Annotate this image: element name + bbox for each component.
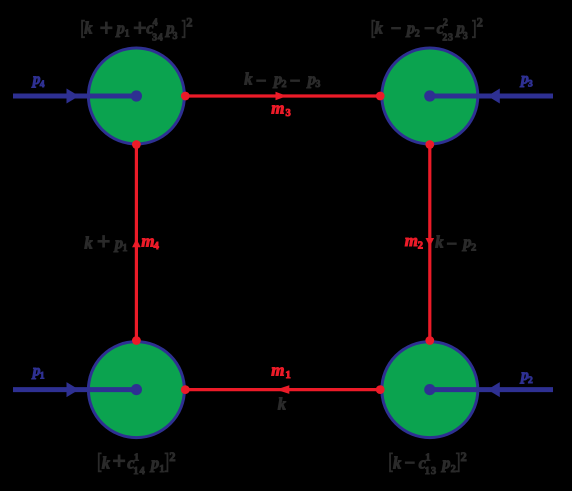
svg-text:2: 2 — [282, 79, 287, 90]
vertex dot bottom-right — [424, 384, 435, 395]
svg-text:2: 2 — [418, 241, 423, 252]
svg-text:k: k — [435, 233, 444, 252]
label m3 — [271, 98, 291, 119]
label m2 — [405, 231, 423, 252]
svg-text:p: p — [115, 19, 125, 38]
svg-text:−: − — [391, 18, 402, 39]
node dot BR-top — [425, 336, 434, 345]
label [k - c^1_13 p2]^2 — [390, 450, 467, 477]
svg-text:2: 2 — [451, 464, 456, 475]
svg-text:14: 14 — [133, 466, 146, 477]
svg-text:2: 2 — [415, 28, 420, 39]
node dot TR-left — [376, 92, 385, 101]
external leg p2: arrowhead — [488, 382, 500, 397]
svg-text:m: m — [405, 231, 418, 250]
svg-text:−: − — [256, 71, 267, 92]
propagator bottom (m1): wire — [185, 388, 380, 391]
svg-text:4: 4 — [154, 241, 160, 252]
svg-text:34: 34 — [152, 32, 163, 43]
svg-text:3: 3 — [173, 31, 178, 42]
svg-text:+: + — [97, 229, 111, 255]
label p3 — [519, 71, 533, 90]
svg-text:2: 2 — [186, 15, 192, 29]
svg-text:m: m — [271, 360, 284, 379]
external leg p1: wire — [13, 387, 136, 392]
node dot TL-right — [181, 92, 190, 101]
svg-text:k: k — [393, 453, 402, 472]
svg-text:1: 1 — [286, 370, 291, 381]
propagator top (m3): wire — [185, 94, 380, 97]
label m1 — [271, 360, 291, 381]
svg-text:4: 4 — [153, 18, 158, 29]
svg-text:k: k — [244, 70, 253, 89]
svg-text:k: k — [84, 19, 93, 38]
svg-text:m: m — [271, 98, 284, 117]
vertex blob top-left — [88, 48, 184, 144]
label m4 — [141, 232, 159, 253]
label k + p1 — [84, 229, 127, 255]
svg-text:k: k — [375, 19, 384, 38]
external leg p2: wire — [430, 387, 553, 392]
svg-text:2: 2 — [461, 450, 467, 464]
label [k + p1 + c^4_34 p3]^2 — [82, 15, 193, 43]
svg-text:p: p — [405, 19, 415, 38]
svg-text:2: 2 — [528, 376, 533, 386]
label k — [278, 395, 287, 414]
label k - p2 - p3 — [244, 70, 320, 92]
vertex dot top-right — [424, 90, 435, 101]
vertex blob bottom-left — [88, 342, 184, 438]
label k - p2 — [435, 233, 476, 255]
svg-text:23: 23 — [442, 32, 453, 43]
external leg p3: wire — [430, 94, 553, 99]
vertex dot bottom-left — [131, 384, 142, 395]
svg-text:3: 3 — [463, 31, 468, 42]
svg-text:1: 1 — [159, 464, 164, 475]
external leg p1: arrowhead — [67, 382, 80, 397]
external leg p4: arrowhead — [67, 89, 80, 104]
node dot BR-left — [376, 385, 385, 394]
svg-text:3: 3 — [528, 79, 533, 89]
node dot BL-right — [181, 385, 190, 394]
svg-text:1: 1 — [122, 243, 127, 254]
label p4 — [31, 71, 45, 90]
svg-text:p: p — [149, 453, 159, 472]
propagator top: arrow right — [276, 92, 288, 101]
label [k + c^1_14 p1]^2 — [99, 449, 176, 477]
propagator right: arrow down — [426, 238, 435, 247]
svg-text:−: − — [424, 18, 435, 39]
propagator left: arrow up — [132, 239, 141, 248]
label [k - p2 - c^2_23 p3]^2 — [372, 15, 483, 43]
svg-text:3: 3 — [286, 108, 291, 119]
svg-text:+: + — [99, 16, 113, 42]
svg-text:1: 1 — [134, 452, 139, 463]
node dot BL-top — [132, 336, 141, 345]
svg-text:k: k — [102, 453, 111, 472]
external leg p4: wire — [13, 94, 136, 99]
svg-text:3: 3 — [315, 79, 320, 90]
svg-text:k: k — [278, 395, 287, 414]
svg-text:4: 4 — [40, 80, 45, 90]
node dot TR-bottom — [425, 140, 434, 149]
propagator bottom: arrow left — [276, 385, 289, 394]
svg-text:2: 2 — [477, 15, 483, 29]
svg-text:2: 2 — [471, 242, 476, 253]
svg-text:13: 13 — [425, 466, 438, 477]
svg-text:k: k — [84, 234, 93, 253]
vertex blob top-right — [382, 48, 478, 144]
svg-text:−: − — [446, 234, 457, 255]
svg-text:p: p — [461, 233, 471, 252]
external leg p3: arrowhead — [488, 89, 500, 104]
vertex dot top-left — [131, 90, 142, 101]
svg-text:2: 2 — [169, 450, 175, 464]
svg-text:1: 1 — [125, 28, 130, 39]
svg-text:p: p — [440, 453, 450, 472]
label p2 — [519, 367, 533, 386]
svg-text:−: − — [290, 71, 301, 92]
vertex blob bottom-right — [382, 342, 478, 438]
svg-text:2: 2 — [443, 18, 448, 29]
svg-text:+: + — [133, 16, 147, 42]
svg-text:1: 1 — [40, 371, 45, 381]
label p1 — [31, 363, 45, 382]
propagator right (m2): wire — [428, 145, 431, 341]
svg-text:+: + — [112, 449, 126, 475]
svg-text:−: − — [404, 453, 415, 474]
svg-text:1: 1 — [425, 452, 430, 463]
node dot TL-bottom — [132, 140, 141, 149]
propagator left (m4): wire — [135, 145, 138, 341]
